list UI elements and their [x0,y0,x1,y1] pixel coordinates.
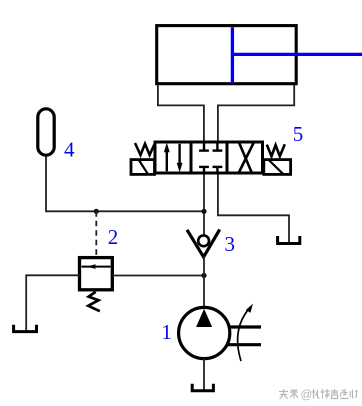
tank bottom (pump suction) [192,384,213,391]
wire valve T port to right tank [218,175,289,244]
wire relief valve left port to tank [26,275,79,331]
relief valve internal arrow [82,266,111,268]
check valve 3 [187,229,220,257]
piston (blue) [231,27,234,83]
junction node pump line [201,273,206,278]
svg-text:@: @ [301,390,313,402]
svg-text:4: 4 [64,138,75,162]
piston rod (blue) [232,53,362,56]
cylinder body [157,26,297,84]
valve left position: up arrow [166,150,168,171]
pilot dashed line to relief valve [95,211,97,256]
valve center position: blocked port T symbols [203,144,205,151]
svg-text:5: 5 [293,122,304,146]
wire cylinder right port to valve port B [218,85,294,142]
wire cylinder left port to valve port A [158,85,204,142]
wire accumulator to P line [46,157,204,212]
relief valve 2 box [80,258,113,290]
valve U5 body (3 position boxes) [155,142,263,173]
solenoid left of valve [131,160,155,175]
wire relief valve right port to pump line [113,275,205,277]
junction node P line [201,209,206,214]
tank left (relief return) [14,325,37,332]
wire valve P port down to check valve [203,175,205,236]
pump outlet triangle [196,309,212,327]
spring left of valve [135,143,155,155]
valve right position: crossed flow paths [239,142,253,175]
pump drive shaft lines [229,325,262,328]
junction node accumulator/pilot [94,209,99,214]
tank right (valve return) [278,236,300,244]
wire check valve to pump [203,256,205,308]
relief valve spring [88,292,100,311]
pump 1 circle [179,307,230,358]
svg-text:2: 2 [108,225,119,249]
accumulator 4 [38,109,54,155]
valve left position: down arrow [178,144,180,165]
spring right of valve [267,144,285,156]
wire pump to bottom tank [203,359,205,391]
solenoid right of valve [264,160,291,175]
watermark 头条 @机械智造师 [279,389,358,402]
rotation arrow arc [238,307,251,361]
svg-text:3: 3 [224,232,235,256]
svg-text:1: 1 [161,320,172,344]
